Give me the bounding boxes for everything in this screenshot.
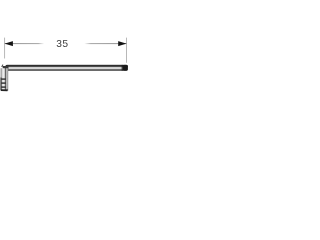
dimension line right segment	[85, 43, 127, 44]
clip nub top-left	[1, 64, 3, 67]
dimension line left segment	[5, 43, 45, 44]
extension line right	[126, 38, 128, 63]
connector bottom cap	[1, 89, 8, 91]
rod tube body	[6, 65, 128, 71]
connector cylinder body	[1, 68, 9, 91]
connector rib 2	[1, 82, 6, 83]
extension line left	[4, 38, 6, 59]
svg-text:35: 35	[56, 39, 68, 50]
rod bottom edge	[7, 70, 127, 71]
rod top edge	[7, 65, 127, 66]
rod left joint	[3, 66, 9, 69]
connector rib 3	[1, 86, 6, 87]
connector left edge	[0, 78, 1, 91]
connector rib 1	[1, 78, 6, 79]
arrowhead right	[118, 41, 126, 46]
arrowhead left	[5, 41, 13, 46]
rod right end cap	[121, 65, 124, 71]
